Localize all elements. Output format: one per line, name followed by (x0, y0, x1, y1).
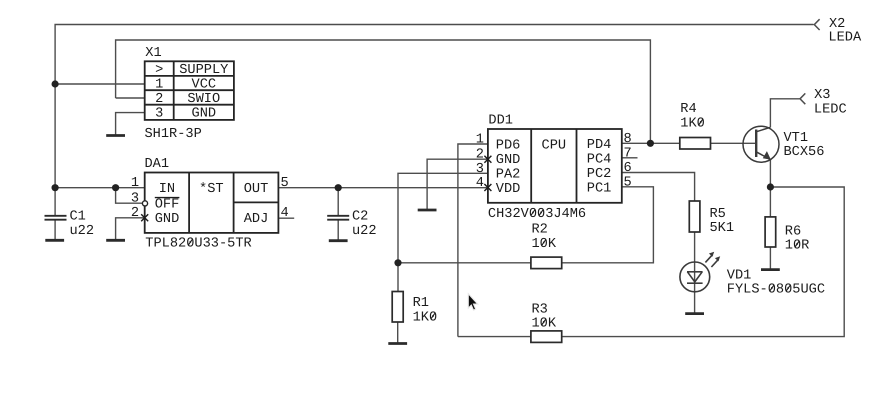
svg-text:OUT: OUT (244, 182, 269, 197)
svg-text:CPU: CPU (542, 139, 567, 154)
svg-text:1K0: 1K0 (680, 117, 705, 132)
svg-text:10K: 10K (532, 317, 557, 332)
svg-text:IN: IN (159, 182, 175, 197)
svg-text:R3: R3 (532, 302, 548, 317)
svg-text:10K: 10K (532, 237, 557, 252)
svg-text:PD4: PD4 (587, 138, 612, 153)
svg-text:R1: R1 (413, 296, 429, 311)
svg-text:X1: X1 (145, 46, 161, 61)
svg-text:VDD: VDD (496, 182, 521, 197)
svg-text:2: 2 (155, 92, 163, 107)
svg-text:3: 3 (155, 106, 163, 121)
svg-text:5: 5 (624, 175, 632, 190)
svg-text:1: 1 (155, 78, 163, 93)
svg-text:SWIO: SWIO (187, 92, 220, 107)
svg-text:VD1: VD1 (727, 268, 752, 283)
svg-text:LEDC: LEDC (814, 102, 847, 117)
svg-text:u22: u22 (70, 224, 95, 239)
svg-text:1: 1 (131, 176, 139, 191)
svg-text:SH1R-3P: SH1R-3P (145, 127, 202, 142)
svg-text:R2: R2 (532, 223, 548, 238)
svg-text:CH32V003J4M6: CH32V003J4M6 (488, 207, 586, 222)
svg-text:2: 2 (476, 148, 484, 163)
svg-text:u22: u22 (352, 224, 377, 239)
svg-text:PC2: PC2 (587, 167, 612, 182)
svg-text:C1: C1 (70, 210, 86, 225)
svg-text:10R: 10R (785, 239, 810, 254)
svg-text:ADJ: ADJ (244, 212, 269, 227)
svg-text:5K1: 5K1 (710, 221, 735, 236)
svg-text:GND: GND (192, 106, 217, 121)
svg-text:PA2: PA2 (496, 168, 521, 183)
svg-text:>: > (155, 63, 163, 78)
svg-text:2: 2 (131, 206, 139, 221)
svg-text:1: 1 (476, 133, 484, 148)
svg-text:OFF: OFF (155, 198, 180, 213)
svg-text:VT1: VT1 (784, 131, 809, 146)
svg-text:C2: C2 (352, 210, 368, 225)
svg-text:R4: R4 (680, 102, 696, 117)
svg-text:DA1: DA1 (145, 157, 170, 172)
svg-text:TPL820U33-5TR: TPL820U33-5TR (145, 237, 251, 252)
svg-text:3: 3 (476, 162, 484, 177)
svg-text:5: 5 (281, 176, 289, 191)
svg-text:R5: R5 (710, 207, 726, 222)
svg-text:PD6: PD6 (496, 139, 521, 154)
svg-text:SUPPLY: SUPPLY (179, 63, 228, 78)
svg-text:PC1: PC1 (587, 181, 612, 196)
svg-text:VCC: VCC (192, 78, 217, 93)
svg-text:1K0: 1K0 (413, 310, 438, 325)
svg-text:DD1: DD1 (488, 114, 513, 129)
svg-text:GND: GND (155, 212, 180, 227)
svg-text:PC4: PC4 (587, 153, 612, 168)
svg-text:BCX56: BCX56 (784, 145, 825, 160)
svg-text:*ST: *ST (199, 182, 224, 197)
svg-text:7: 7 (624, 146, 632, 161)
svg-text:6: 6 (624, 161, 632, 176)
svg-text:R6: R6 (785, 225, 801, 240)
svg-text:X3: X3 (814, 88, 830, 103)
svg-text:3: 3 (131, 192, 139, 207)
svg-text:4: 4 (281, 206, 289, 221)
svg-text:FYLS-0805UGC: FYLS-0805UGC (727, 283, 825, 298)
svg-text:4: 4 (476, 176, 484, 191)
svg-text:8: 8 (624, 132, 632, 147)
svg-text:GND: GND (496, 153, 521, 168)
svg-text:LEDA: LEDA (828, 30, 862, 45)
